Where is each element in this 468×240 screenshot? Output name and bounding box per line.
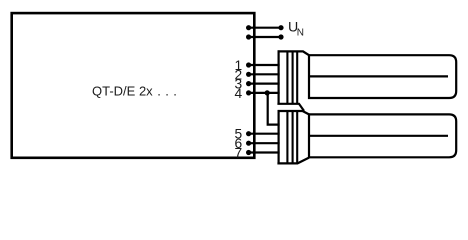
node terminal 2 (246, 72, 251, 77)
lamp EL1 tube (309, 55, 456, 98)
svg-text:N: N (297, 27, 304, 38)
lamp EL2 tube (309, 114, 456, 157)
wire terminal 6 to lamp2 pin3 (249, 142, 280, 144)
svg-text:7: 7 (235, 146, 243, 161)
node mains N left terminal (246, 34, 251, 39)
node mains N right terminal (278, 34, 283, 39)
lamp EL2 base inner line a (286, 111, 288, 163)
lamp EL1 base bottom edge and slant to lamp2 cap (277, 104, 304, 111)
wire terminal 5 to lamp2 pin2 (249, 133, 280, 135)
node terminal 1 (246, 62, 251, 67)
lamp EL1 base inner line a (286, 51, 288, 103)
node mains L left terminal (246, 25, 251, 30)
svg-text:.: . (173, 83, 177, 98)
wire mains N (249, 36, 281, 38)
svg-text:.: . (165, 83, 169, 98)
wire terminal 7 to lamp2 pin4 (249, 151, 280, 153)
lamp EL2 base left edge (278, 110, 280, 163)
wire junction drop to lamp2 pin1 (268, 93, 280, 125)
ballast box QT-D/E 2x (12, 13, 255, 158)
node mains L right terminal (278, 25, 283, 30)
wire terminal 1 to lamp1 pin1 (249, 64, 280, 66)
lamp EL1 cap top edge and slant (278, 51, 309, 55)
node terminal 4 (246, 90, 251, 95)
lamp EL1 base left edge (278, 50, 280, 103)
wire terminal 2 to lamp1 pin2 (249, 73, 280, 75)
node terminal 7 (246, 150, 251, 155)
wire mains L (249, 27, 281, 29)
svg-text:4: 4 (235, 86, 243, 101)
node terminal 3 (246, 81, 251, 86)
node junction on wire 4 (265, 90, 270, 95)
lamp EL2 tube middle line (309, 135, 448, 137)
lamp EL2 cap top edge and slant (278, 111, 309, 114)
wire terminal 3 to lamp1 pin3 (249, 82, 280, 84)
lamp EL2 base right edge (296, 111, 298, 163)
label UN (288, 20, 304, 39)
wire terminal 4 to lamp1 pin4 (249, 92, 280, 94)
lamp EL2 base inner line b (292, 111, 294, 163)
lamp EL1 base right edge (296, 51, 298, 103)
node terminal 6 (246, 141, 251, 146)
lamp EL1 tube middle line (309, 75, 448, 77)
svg-text:.: . (157, 83, 161, 98)
svg-text:QT-D/E 2x: QT-D/E 2x (92, 83, 153, 98)
node terminal 5 (246, 131, 251, 136)
lamp EL1 base inner line b (292, 51, 294, 103)
lamp EL2 base bottom edge and slant (277, 158, 309, 164)
label QT-D/E 2x . . . (92, 83, 177, 98)
